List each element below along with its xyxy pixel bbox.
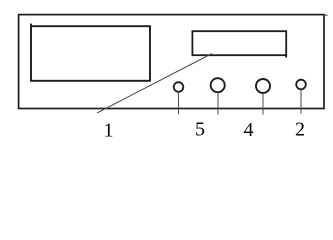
svg-text:4: 4: [244, 119, 254, 141]
svg-text:1: 1: [104, 120, 114, 142]
svg-text:2: 2: [295, 119, 305, 141]
svg-text:5: 5: [195, 119, 205, 141]
